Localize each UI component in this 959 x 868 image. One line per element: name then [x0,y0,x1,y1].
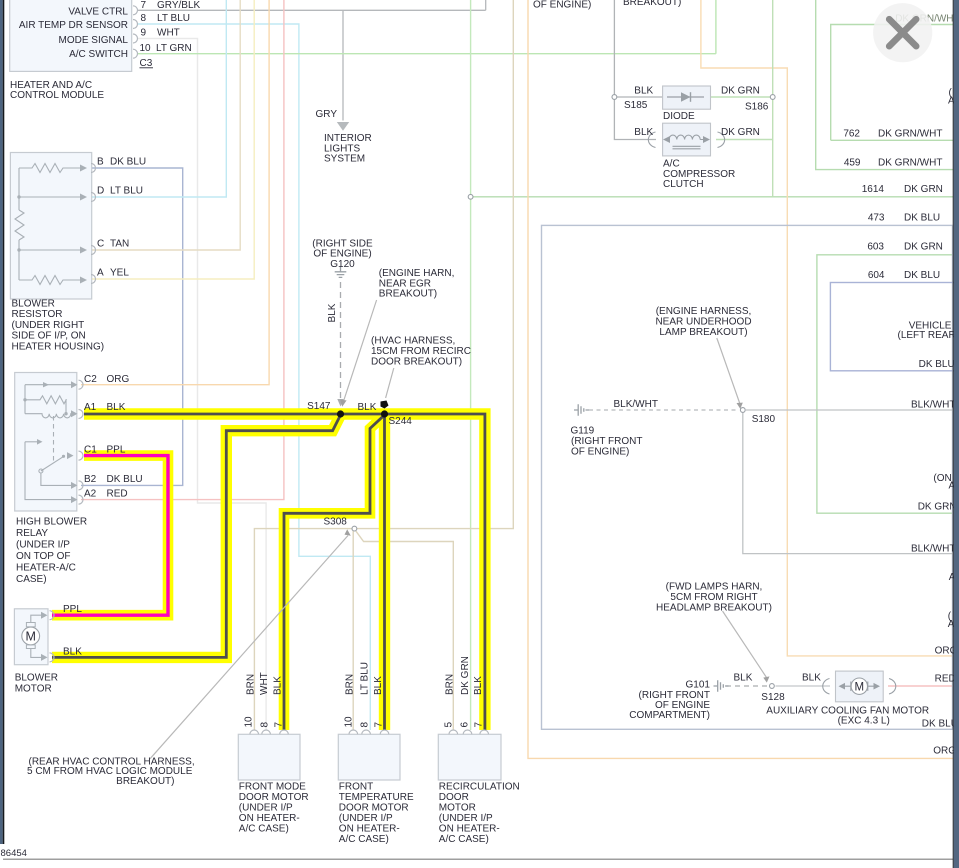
resistor pin arcs [91,164,96,284]
svg-text:BRN: BRN [445,674,456,695]
wire LT BLU pin8 [137,24,370,730]
svg-text:D: D [97,186,104,197]
recirculation door motor box [438,734,501,780]
big harness box [542,225,953,729]
svg-text:AIR TEMP DR SENSOR: AIR TEMP DR SENSOR [19,20,128,31]
svg-text:DOOR MOTOR: DOOR MOTOR [339,803,409,814]
svg-text:8: 8 [141,13,147,24]
svg-text:MOTOR: MOTOR [439,803,476,814]
svg-text:LT GRN: LT GRN [156,43,192,54]
wire GRY/BLK pin7 [137,0,486,10]
svg-text:10: 10 [140,43,152,54]
vehicle module box [830,283,956,371]
wire 1614 DK GRN [471,196,953,198]
node LT GRN junction [468,194,473,199]
wire BRN S308 to front temp pin10 [352,531,354,731]
svg-text:FRONT: FRONT [339,782,373,793]
svg-text:DK GRN: DK GRN [918,502,957,513]
svg-text:10: 10 [343,716,354,728]
svg-text:LT BLU: LT BLU [157,13,190,24]
svg-text:7: 7 [374,722,385,728]
svg-text:HIGH BLOWER: HIGH BLOWER [16,516,87,527]
wire ORG relay C2 [81,0,269,385]
svg-text:BRN: BRN [246,674,257,695]
ground G101 [714,680,729,692]
svg-text:A: A [97,268,104,279]
svg-text:(UNDER RIGHT: (UNDER RIGHT [12,320,85,331]
svg-text:LT BLU: LT BLU [110,186,143,197]
svg-text:ON HEATER-: ON HEATER- [339,824,400,835]
svg-text:PPL: PPL [107,444,126,455]
svg-text:7: 7 [141,0,147,11]
svg-text:(UNDER I/P: (UNDER I/P [439,813,493,824]
svg-text:(UNDER I/P: (UNDER I/P [16,539,70,550]
svg-text:RECIRCULATION: RECIRCULATION [439,782,520,793]
svg-text:HEATER-A/C: HEATER-A/C [16,562,76,573]
wire WHT pin9 [137,39,266,731]
node S185 [612,95,617,100]
svg-text:(UNDER I/P: (UNDER I/P [239,803,293,814]
svg-text:WHT: WHT [157,28,180,39]
front temperature door motor box [338,734,400,780]
svg-text:DK BLU: DK BLU [904,270,940,281]
A/C compressor clutch box [663,123,711,156]
wire BLK G101 dashed to S128 [726,685,768,687]
svg-text:VALVE CTRL: VALVE CTRL [68,7,128,18]
svg-text:TEMPERATURE: TEMPERATURE [339,792,414,803]
junction S244 [381,410,388,417]
wire LT GRN vertical to recirc pin6 [470,0,472,730]
svg-text:BLK/WHT: BLK/WHT [911,543,955,554]
svg-text:DK BLU: DK BLU [904,213,940,224]
svg-text:BLK: BLK [327,303,338,322]
svg-text:9: 9 [141,28,147,39]
svg-text:8: 8 [360,722,371,728]
svg-text:BLK: BLK [802,673,821,684]
svg-text:BLK: BLK [734,673,753,684]
high blower relay box [15,373,77,512]
svg-text:M: M [25,630,35,644]
svg-text:GRY/BLK: GRY/BLK [157,0,200,11]
svg-text:BLK: BLK [358,402,377,413]
svg-text:(UNDER I/P: (UNDER I/P [339,813,393,824]
wire DK GRN diode to S186 [711,96,771,98]
wire 459 DK GRN/WHT [816,0,953,170]
relay internals [25,385,72,500]
svg-text:7: 7 [474,722,485,728]
svg-text:S185: S185 [624,100,648,111]
svg-text:473: 473 [868,213,885,224]
node S180 [740,408,745,413]
door motor pin arcs [250,730,489,734]
svg-text:BREAKOUT): BREAKOUT) [379,289,437,300]
svg-text:BREAKOUT): BREAKOUT) [623,0,681,8]
wire 603 DK GRN [817,255,953,513]
svg-text:DK BLU: DK BLU [110,157,146,168]
svg-text:604: 604 [868,270,885,281]
wire RED relay A2 [81,0,284,500]
svg-text:PPL: PPL [63,604,82,615]
svg-text:A/C: A/C [663,158,680,169]
wire DK GRN diode feed [772,0,774,197]
svg-text:DK GRN/WHT: DK GRN/WHT [878,129,942,140]
svg-text:5CM FROM RIGHT: 5CM FROM RIGHT [670,592,757,603]
svg-text:762: 762 [843,129,860,140]
svg-text:A/C CASE): A/C CASE) [439,834,489,845]
wire DK GRN clutch [716,139,773,141]
svg-text:86454: 86454 [1,848,27,859]
wire BRN S308 up-right riser [354,0,513,529]
wire GRY branch to interior lights [342,10,344,120]
svg-text:7: 7 [274,722,285,728]
svg-text:BLK/WHT: BLK/WHT [911,399,955,410]
svg-text:8: 8 [260,722,271,728]
svg-text:CASE): CASE) [16,574,47,585]
wire BLK diode left rail [614,0,656,140]
wire BRN S308 left to front mode pin10 [254,529,354,730]
svg-text:DOOR: DOOR [439,792,469,803]
svg-text:(HVAC HARNESS,: (HVAC HARNESS, [371,336,455,347]
svg-text:G119: G119 [571,426,595,437]
svg-text:459: 459 [844,158,861,169]
svg-text:HEATER HOUSING): HEATER HOUSING) [12,341,105,352]
svg-text:10: 10 [244,716,255,728]
clutch coil symbol [648,132,724,149]
ground G120 [335,267,347,278]
dark cores of BLK wires [84,414,485,730]
svg-text:COMPRESSOR: COMPRESSOR [663,169,735,180]
svg-text:B2: B2 [84,474,97,485]
svg-text:BLOWER: BLOWER [15,672,58,683]
svg-text:5: 5 [443,722,454,728]
relay pin arcs [79,380,84,504]
svg-text:603: 603 [867,242,884,253]
svg-text:15CM FROM RECIRC: 15CM FROM RECIRC [371,346,471,357]
svg-text:MOTOR: MOTOR [15,683,52,694]
wire YEL resistor A [92,0,254,279]
svg-text:WHT: WHT [259,672,270,695]
callout line: engine harn near EGR to S147 [344,300,377,401]
svg-text:DK GRN: DK GRN [460,656,471,695]
svg-text:MODE SIGNAL: MODE SIGNAL [59,35,129,46]
wire LT GRN pin10 [137,0,716,54]
svg-text:C2: C2 [84,374,97,385]
svg-text:DK GRN/WHT: DK GRN/WHT [878,158,942,169]
svg-text:G120: G120 [330,259,355,270]
svg-text:BLK: BLK [373,676,384,695]
left window edge strip [0,0,3,844]
svg-text:BLK/WHT: BLK/WHT [614,399,658,410]
ground G119 [574,404,589,416]
resistor internals [15,164,81,285]
footer separator line [3,858,953,860]
wire BLK/WHT S180 right [746,409,953,411]
wire ORG tall riser [528,0,953,758]
node S308 [352,526,357,531]
svg-text:ON HEATER-: ON HEATER- [439,824,500,835]
svg-text:DIODE: DIODE [663,111,695,122]
svg-text:DK BLU: DK BLU [107,474,143,485]
svg-text:RELAY: RELAY [16,528,48,539]
svg-text:BLK: BLK [63,646,82,657]
svg-text:DK GRN: DK GRN [721,127,760,138]
svg-text:SYSTEM: SYSTEM [324,154,365,165]
svg-text:CLUTCH: CLUTCH [663,179,704,190]
svg-text:S244: S244 [389,416,413,427]
svg-text:FRONT MODE: FRONT MODE [239,782,306,793]
diode box [663,86,711,109]
svg-text:S186: S186 [745,102,769,113]
wire DK GRN/WHT top [831,25,953,141]
svg-text:DK GRN: DK GRN [721,86,760,97]
svg-text:SIDE OF I/P, ON: SIDE OF I/P, ON [12,331,86,342]
svg-text:NEAR UNDERHOOD: NEAR UNDERHOOD [655,316,751,327]
wire DK BLU resistor B to relay B2 [81,168,183,485]
svg-text:RESISTOR: RESISTOR [12,309,63,320]
front mode door motor box [238,734,300,780]
svg-text:GRY: GRY [316,109,338,120]
callout line: rear HVAC control harness to S308 [150,536,348,759]
highlighted BLK wire: relay A1 to S147/S244 to recirc pin7 [52,414,485,730]
svg-text:DOOR BREAKOUT): DOOR BREAKOUT) [371,357,462,368]
svg-text:A2: A2 [84,489,97,500]
svg-text:CONTROL MODULE: CONTROL MODULE [10,90,104,101]
svg-text:BREAKOUT): BREAKOUT) [116,776,174,787]
callout line: HVAC harness to S244 [386,368,394,398]
svg-text:ORG: ORG [107,374,130,385]
svg-text:BLK: BLK [107,402,126,413]
svg-text:LAMP BREAKOUT): LAMP BREAKOUT) [659,327,747,338]
svg-text:BLOWER: BLOWER [12,299,55,310]
interior lights system off-page triangle [337,122,349,131]
wire BLK/WHT G119 dashed to S180 [589,409,738,411]
callout line: engine harness underhood to S180 [717,338,740,404]
wire ORG riser top [701,0,953,656]
wire BRN S308 diagonal to recirc pin5 [356,531,454,730]
wire LT BLU resistor D [92,0,226,197]
svg-text:OF ENGINE): OF ENGINE) [533,0,591,11]
svg-text:DOOR MOTOR: DOOR MOTOR [239,792,309,803]
diode symbol [667,96,704,98]
svg-text:6: 6 [460,722,471,728]
svg-text:C: C [97,239,104,250]
highlighted BLK branch: S147 to blower motor [52,415,341,657]
svg-text:A1: A1 [84,402,97,413]
wire BLK/WHT S180 down branch [743,413,953,554]
svg-text:(LEFT REAR OF: (LEFT REAR OF [898,330,959,341]
svg-text:COMPARTMENT): COMPARTMENT) [629,710,710,721]
blower motor symbol [22,627,40,645]
callout line: fwd lamps harn to S128 [723,611,767,678]
svg-text:YEL: YEL [110,268,129,279]
pale signal wires [81,0,953,758]
close button [873,3,932,62]
svg-text:M: M [855,681,865,693]
svg-text:DK BLU: DK BLU [919,359,955,370]
module pin arcs [133,6,138,58]
svg-text:BLK: BLK [473,676,484,695]
svg-text:DK GRN: DK GRN [904,242,943,253]
svg-text:RED: RED [107,489,128,500]
svg-text:(RIGHT FRONT: (RIGHT FRONT [571,436,642,447]
blower resistor box [10,153,91,300]
svg-text:HEADLAMP BREAKOUT): HEADLAMP BREAKOUT) [656,602,772,613]
svg-text:S128: S128 [761,692,785,703]
highlighted BLK branch: S244 to front temp pin7 [379,414,390,730]
junction S147 [337,410,344,417]
svg-text:(EXC 4.3 L): (EXC 4.3 L) [838,716,890,727]
svg-text:DK GRN: DK GRN [904,184,943,195]
svg-text:BLK: BLK [634,127,653,138]
svg-text:C1: C1 [84,444,97,455]
svg-text:A/C SWITCH: A/C SWITCH [69,49,128,60]
svg-text:OF ENGINE): OF ENGINE) [571,447,629,458]
node S128 [770,684,775,689]
wire BLK G120 dashed ground drop [340,282,342,399]
svg-text:LT BLU: LT BLU [360,662,371,695]
highlighted BLK branch: S244 to front mode pin7 [284,415,385,730]
svg-text:ON TOP OF: ON TOP OF [16,551,70,562]
right scrollbar strip [953,0,954,868]
callout arrowhead blob above S244 [381,401,389,409]
svg-text:S180: S180 [752,414,776,425]
svg-text:BLK: BLK [273,676,284,695]
blower motor pin arcs [50,611,55,662]
svg-text:ON HEATER-: ON HEATER- [239,813,300,824]
svg-text:DK BLU: DK BLU [922,719,958,730]
svg-text:RED: RED [935,674,956,685]
svg-text:BRN: BRN [345,674,356,695]
wire RED aux fan [888,685,953,687]
svg-text:TAN: TAN [110,239,129,250]
svg-text:BLK: BLK [634,86,653,97]
svg-text:(ENGINE HARNESS,: (ENGINE HARNESS, [656,306,752,317]
svg-text:AUXILIARY COOLING FAN MOTOR: AUXILIARY COOLING FAN MOTOR [766,705,929,716]
blower motor box [14,609,48,665]
svg-text:B: B [97,157,104,168]
connector C3 underline [140,67,154,69]
wire BLK S185 to diode [617,96,663,98]
node S186 [770,95,775,100]
svg-text:A/C CASE): A/C CASE) [339,834,389,845]
wire TAN resistor C [92,0,240,250]
highlighted PPL wire: relay C1 to blower motor [52,456,168,616]
svg-text:S308: S308 [324,517,348,528]
svg-text:A/C CASE): A/C CASE) [239,824,289,835]
svg-text:S147: S147 [307,401,331,412]
svg-text:1614: 1614 [862,184,885,195]
heater A/C control module box [10,0,132,71]
wire BLK S128 to fan motor [776,685,831,687]
aux cooling fan motor box [836,671,884,702]
svg-text:(FWD LAMPS HARN,: (FWD LAMPS HARN, [666,582,763,593]
